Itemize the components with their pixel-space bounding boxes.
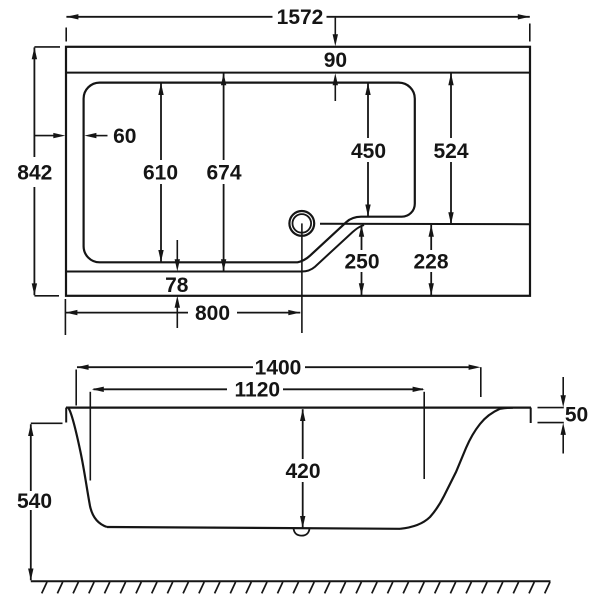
dim 842 arrows bbox=[32, 47, 37, 295]
dim 250 arrows bbox=[359, 225, 364, 295]
tub bottom line (side view) bbox=[107, 527, 400, 529]
svg-text:1572: 1572 bbox=[277, 6, 324, 29]
svg-text:674: 674 bbox=[206, 162, 241, 185]
dim 250 label bbox=[344, 251, 379, 274]
dim 842 extension lines bbox=[34, 47, 60, 296]
dim 450 label bbox=[351, 140, 386, 163]
dim 420 label bbox=[285, 460, 320, 483]
dim 1572 arrows bbox=[66, 14, 529, 19]
dim 540 extension line bbox=[31, 422, 63, 424]
dim 842 label bbox=[17, 162, 52, 185]
svg-text:250: 250 bbox=[344, 251, 379, 274]
dim 90 arrows bbox=[333, 34, 338, 85]
dim 420 line bbox=[302, 409, 304, 528]
dim 50 extension lines bbox=[538, 408, 564, 423]
dim 540 arrows bbox=[28, 424, 33, 581]
dim 1572 label bbox=[277, 6, 324, 29]
dim 228 line bbox=[430, 225, 432, 295]
dim 674 arrows bbox=[221, 73, 226, 271]
svg-text:1400: 1400 bbox=[255, 357, 302, 380]
dim 610 arrows bbox=[158, 83, 163, 262]
dim 90 label bbox=[324, 49, 347, 72]
dim 1400 line bbox=[77, 366, 470, 368]
dim 50 arrows bbox=[561, 395, 566, 435]
dim 450 arrows bbox=[365, 83, 370, 217]
dim 674 label bbox=[206, 162, 241, 185]
svg-text:842: 842 bbox=[17, 162, 52, 185]
dim 1572 line bbox=[66, 16, 529, 18]
dim 1120 line bbox=[94, 388, 424, 390]
dim 540 line bbox=[30, 424, 32, 580]
dim 78 label bbox=[165, 274, 189, 297]
dim 60 label bbox=[113, 125, 136, 148]
svg-text:800: 800 bbox=[195, 302, 230, 325]
left rim end tick bbox=[65, 408, 67, 423]
ground line bbox=[31, 580, 551, 582]
dim 800 label bbox=[195, 302, 230, 325]
dim 540 label bbox=[17, 490, 52, 513]
svg-text:60: 60 bbox=[113, 125, 136, 148]
svg-text:78: 78 bbox=[165, 274, 189, 297]
bottom rim inner line with step to shower end bbox=[66, 225, 364, 272]
svg-text:50: 50 bbox=[565, 403, 588, 426]
dim 1400 label bbox=[255, 357, 302, 380]
dim 228 arrows bbox=[429, 225, 434, 295]
drain bump (side view) bbox=[294, 528, 310, 535]
drain inner circle bbox=[293, 214, 312, 233]
dim 90 stems bbox=[334, 18, 336, 101]
dim 78 arrows bbox=[175, 259, 180, 308]
bath top edge (side view) bbox=[66, 407, 531, 409]
drain centerline bbox=[301, 223, 303, 333]
svg-text:228: 228 bbox=[413, 251, 448, 274]
svg-text:450: 450 bbox=[351, 140, 386, 163]
dim 610 label bbox=[143, 162, 178, 185]
dim 1572 extension lines bbox=[66, 24, 530, 42]
shower-end ledge line bbox=[320, 223, 530, 226]
dim 524 line bbox=[450, 73, 452, 224]
dim 800 arrows bbox=[65, 310, 300, 315]
dim 50 label bbox=[565, 403, 588, 426]
drain outer circle bbox=[289, 211, 314, 236]
dim 60 stems bbox=[34, 135, 107, 137]
dim 50 stems bbox=[562, 377, 564, 454]
dim 1120 extension lines bbox=[90, 392, 424, 481]
dim 228 label bbox=[413, 251, 448, 274]
dim 524 label bbox=[433, 140, 468, 163]
dim 1400 arrows bbox=[77, 365, 481, 370]
svg-text:540: 540 bbox=[17, 490, 52, 513]
svg-text:1120: 1120 bbox=[235, 379, 281, 402]
svg-text:524: 524 bbox=[433, 140, 468, 163]
dim 800 line bbox=[65, 312, 300, 314]
svg-text:90: 90 bbox=[324, 49, 347, 72]
dim 800 extension line bbox=[64, 299, 66, 335]
outer bath rim rectangle (plan view) bbox=[66, 47, 530, 296]
dim 450 line bbox=[367, 83, 369, 216]
dim 674 line bbox=[223, 73, 225, 271]
dim 842 line bbox=[33, 47, 35, 295]
dim 1120 label bbox=[235, 379, 281, 402]
svg-text:420: 420 bbox=[285, 460, 320, 483]
dim 524 arrows bbox=[448, 73, 453, 224]
right rim end tick bbox=[530, 408, 532, 423]
dim 420 arrows bbox=[300, 409, 305, 528]
left inner wall (side view) bbox=[69, 408, 107, 527]
dim 250 line bbox=[361, 225, 363, 295]
dim 1400 extension lines bbox=[76, 367, 481, 405]
top rim inner line bbox=[66, 72, 530, 74]
dim 610 line bbox=[160, 83, 162, 262]
dim 60 arrows bbox=[53, 133, 96, 138]
ground hatching bbox=[42, 582, 550, 593]
dim 78 stems bbox=[176, 240, 178, 328]
right inner wall S-curve (side view) bbox=[400, 408, 513, 529]
inner tub outline (plan view) bbox=[84, 83, 415, 263]
dim 1120 arrows bbox=[92, 387, 425, 392]
svg-text:610: 610 bbox=[143, 162, 178, 185]
